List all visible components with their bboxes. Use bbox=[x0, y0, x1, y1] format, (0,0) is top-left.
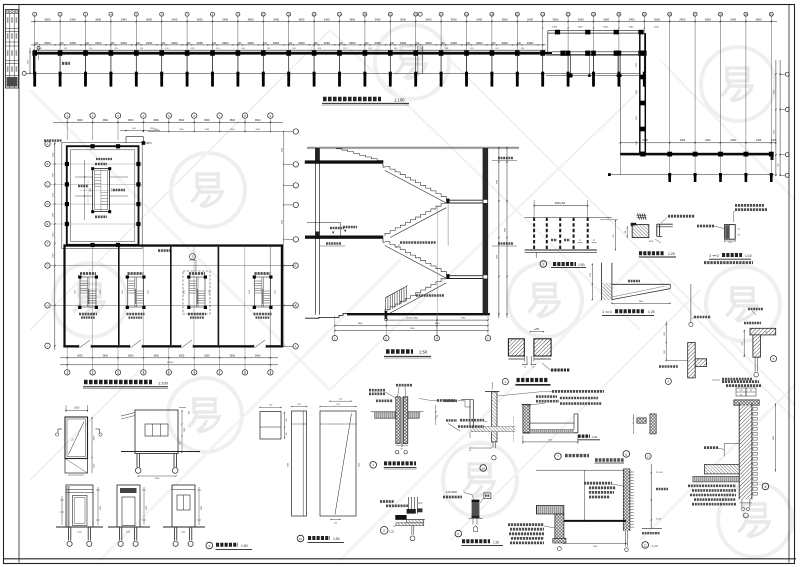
svg-text:1500: 1500 bbox=[77, 532, 81, 534]
svg-text:30: 30 bbox=[532, 367, 534, 369]
svg-text:3600: 3600 bbox=[773, 436, 775, 440]
svg-text:80: 80 bbox=[750, 390, 752, 392]
svg-text:380: 380 bbox=[286, 433, 288, 436]
svg-text:240: 240 bbox=[60, 42, 65, 45]
svg-text:3300: 3300 bbox=[52, 153, 54, 157]
svg-text:3600: 3600 bbox=[451, 17, 457, 21]
top plan left dimension and bubble A bbox=[22, 46, 40, 75]
right wing lower wall bbox=[620, 152, 773, 160]
svg-text:3300: 3300 bbox=[496, 255, 498, 259]
svg-text:2800: 2800 bbox=[146, 506, 148, 510]
top plan vertical grid lines bbox=[35, 16, 772, 174]
svg-text:150x11=1650: 150x11=1650 bbox=[406, 318, 419, 320]
svg-text:3600: 3600 bbox=[128, 119, 134, 122]
top plan main wall bbox=[33, 51, 646, 56]
booth figure label 9 bbox=[206, 542, 252, 549]
stair section left wall bbox=[315, 148, 319, 315]
left plan left grid bubbles bbox=[45, 141, 50, 348]
svg-text:240: 240 bbox=[491, 42, 496, 45]
svg-text:3600: 3600 bbox=[153, 119, 159, 122]
gutter detail 7 bbox=[522, 397, 603, 444]
svg-text:2400: 2400 bbox=[476, 17, 482, 21]
svg-text:3600: 3600 bbox=[400, 17, 406, 21]
roof joint detail 1 label bbox=[370, 462, 417, 470]
svg-text:240: 240 bbox=[441, 42, 446, 45]
svg-text:500: 500 bbox=[742, 342, 744, 345]
stair section bottom bubbles bbox=[332, 336, 491, 341]
external wall section detail 8 bbox=[688, 382, 776, 518]
svg-text:2400: 2400 bbox=[679, 17, 685, 21]
svg-text:3600: 3600 bbox=[179, 354, 185, 357]
svg-text:1:20: 1:20 bbox=[493, 540, 499, 544]
svg-text:2400: 2400 bbox=[642, 139, 648, 142]
svg-text:3000: 3000 bbox=[94, 435, 96, 441]
svg-text:1400: 1400 bbox=[654, 26, 660, 28]
svg-text:2400: 2400 bbox=[705, 139, 711, 142]
svg-text:3600: 3600 bbox=[349, 17, 355, 21]
svg-text:1500: 1500 bbox=[74, 407, 80, 410]
stair section level-2 floor slab bbox=[305, 160, 383, 163]
stair section flight C bbox=[383, 239, 446, 278]
roof joint detail 1 bbox=[369, 385, 460, 454]
svg-text:3300: 3300 bbox=[52, 193, 54, 197]
svg-text:3600: 3600 bbox=[230, 119, 236, 122]
window mullion detail M1 label bbox=[639, 252, 676, 257]
svg-text:C: C bbox=[47, 183, 49, 187]
tall column elevation 1 bbox=[287, 404, 307, 516]
svg-text:3600: 3600 bbox=[103, 119, 109, 122]
stair section flight B bbox=[385, 204, 446, 238]
svg-text:2400: 2400 bbox=[730, 17, 736, 21]
guard booth plan bbox=[55, 405, 102, 475]
svg-text:1:10: 1:10 bbox=[745, 254, 752, 258]
left plan horizontal grid lines bbox=[50, 164, 295, 305]
svg-text:60: 60 bbox=[740, 394, 742, 396]
svg-text:3600: 3600 bbox=[603, 17, 609, 21]
eave detail 2 bbox=[380, 497, 425, 541]
svg-text:3360: 3360 bbox=[298, 41, 305, 45]
top plan upper wall line bbox=[33, 49, 546, 51]
svg-text:3600: 3600 bbox=[248, 17, 254, 21]
stair section mid landing upper bbox=[446, 199, 483, 204]
top plan bottom wall line with dots bbox=[33, 72, 646, 87]
svg-text:3360: 3360 bbox=[247, 41, 254, 45]
svg-text:3600: 3600 bbox=[298, 17, 304, 21]
svg-text:240: 240 bbox=[625, 231, 627, 234]
external wall section detail 8 label bbox=[762, 483, 769, 490]
svg-text:3300: 3300 bbox=[359, 463, 361, 467]
svg-text:3000+300: 3000+300 bbox=[555, 203, 566, 205]
svg-text:1:20: 1:20 bbox=[652, 544, 658, 548]
stair section interior leaders and labels bbox=[343, 203, 448, 339]
left plan top dimension line bbox=[53, 119, 284, 132]
svg-text:3360: 3360 bbox=[451, 41, 458, 45]
svg-text:2400: 2400 bbox=[731, 139, 737, 142]
svg-text:120: 120 bbox=[339, 399, 342, 401]
svg-text:3360: 3360 bbox=[400, 41, 407, 45]
svg-text:240: 240 bbox=[288, 42, 293, 45]
svg-text:2600: 2600 bbox=[90, 188, 92, 192]
stair section ground floor bbox=[305, 313, 490, 321]
svg-text:240: 240 bbox=[364, 42, 369, 45]
top plan dimension line 2 bbox=[31, 41, 546, 50]
svg-text:2800: 2800 bbox=[100, 506, 102, 510]
svg-text:1200: 1200 bbox=[181, 532, 185, 534]
svg-text:1500: 1500 bbox=[184, 428, 186, 432]
bottom figure label 12 bbox=[642, 542, 658, 549]
svg-text:3360: 3360 bbox=[273, 41, 280, 45]
svg-text:120: 120 bbox=[740, 390, 743, 392]
svg-text:1300: 1300 bbox=[111, 188, 113, 192]
svg-text:3600: 3600 bbox=[204, 354, 210, 357]
svg-text:240: 240 bbox=[314, 42, 319, 45]
svg-text:600: 600 bbox=[664, 332, 666, 335]
stair section right wall bbox=[483, 148, 488, 315]
svg-text:3300: 3300 bbox=[287, 463, 289, 467]
left plan stair unit 4 bbox=[249, 274, 276, 318]
canopy section detail 1-1 label bbox=[602, 310, 655, 315]
svg-text:3600: 3600 bbox=[77, 119, 83, 122]
svg-text:1:100: 1:100 bbox=[158, 380, 169, 385]
svg-text:1400: 1400 bbox=[552, 26, 558, 28]
left plan top grid bubbles bbox=[65, 113, 274, 140]
svg-text:3600: 3600 bbox=[197, 17, 203, 21]
svg-text:3600: 3600 bbox=[128, 354, 134, 357]
svg-text:3600: 3600 bbox=[146, 17, 152, 21]
stair section flight A bbox=[383, 164, 446, 203]
flashing detail 4 label bbox=[665, 378, 671, 384]
stair section upper cut flight bbox=[336, 148, 383, 162]
svg-text:1:50: 1:50 bbox=[578, 263, 585, 267]
stair section entry platform bbox=[307, 223, 344, 236]
svg-text:3600: 3600 bbox=[153, 354, 159, 357]
svg-text:2400: 2400 bbox=[756, 139, 762, 142]
svg-text:2: 2 bbox=[709, 254, 711, 258]
stair section top lines bbox=[307, 147, 519, 149]
svg-text:3360: 3360 bbox=[95, 41, 102, 45]
stair tower top-right notch bbox=[120, 128, 160, 145]
svg-text:2400: 2400 bbox=[273, 17, 279, 21]
svg-text:1450: 1450 bbox=[209, 290, 211, 294]
svg-text:3300: 3300 bbox=[52, 253, 54, 257]
svg-text:240: 240 bbox=[110, 42, 115, 45]
svg-text:1:50: 1:50 bbox=[241, 544, 248, 548]
stair section mid landing lower bbox=[446, 274, 483, 279]
svg-text:0.000: 0.000 bbox=[656, 519, 662, 521]
svg-text:3600: 3600 bbox=[552, 17, 558, 21]
foundation joint detail 6 label bbox=[455, 530, 503, 545]
svg-text:240: 240 bbox=[415, 42, 420, 45]
svg-text:3360: 3360 bbox=[44, 41, 51, 45]
tall columns figure label 10 bbox=[297, 535, 344, 542]
svg-text:240: 240 bbox=[339, 42, 344, 45]
stair section right dimension lines bbox=[496, 147, 507, 318]
svg-text:3300: 3300 bbox=[281, 220, 283, 224]
left plan right bubbles bbox=[283, 263, 298, 349]
svg-text:1:100: 1:100 bbox=[394, 97, 405, 102]
svg-text:2400: 2400 bbox=[375, 17, 381, 21]
svg-text:C: C bbox=[295, 264, 297, 268]
svg-text:3360: 3360 bbox=[146, 41, 153, 45]
svg-text:1450: 1450 bbox=[75, 290, 77, 294]
right wing lower dimension row bbox=[620, 139, 777, 144]
svg-text:1:25: 1:25 bbox=[648, 310, 655, 314]
svg-text:60: 60 bbox=[469, 450, 471, 452]
svg-text:3360: 3360 bbox=[222, 41, 229, 45]
top plan left end wall bbox=[33, 52, 35, 74]
svg-text:3360: 3360 bbox=[527, 41, 534, 45]
left plan bottom grid bubbles bbox=[65, 370, 274, 375]
stair section title bbox=[384, 350, 431, 358]
right wing lower bottom line bbox=[608, 140, 775, 182]
gutter section mini title bbox=[578, 435, 601, 440]
top plan title bbox=[322, 97, 409, 105]
svg-text:30: 30 bbox=[437, 415, 439, 417]
top plan columns bbox=[32, 51, 646, 56]
svg-text:3360: 3360 bbox=[197, 41, 204, 45]
svg-text:C: C bbox=[334, 337, 336, 340]
svg-text:3600: 3600 bbox=[204, 119, 210, 122]
right wing right-edge dimension line and bubbles bbox=[773, 60, 789, 177]
stair tower outer wall bbox=[44, 141, 142, 249]
svg-text:1: 1 bbox=[610, 310, 612, 314]
svg-text:1400: 1400 bbox=[603, 26, 609, 28]
svg-text:3300: 3300 bbox=[52, 233, 54, 237]
gutter detail 7 label bbox=[555, 453, 589, 460]
right wing corner rooms bbox=[546, 55, 640, 153]
svg-text:3600: 3600 bbox=[179, 119, 185, 122]
svg-text:3600: 3600 bbox=[103, 354, 109, 357]
svg-text:1:20: 1:20 bbox=[389, 530, 395, 534]
svg-text:≥250: ≥250 bbox=[534, 328, 540, 331]
svg-text:3600: 3600 bbox=[230, 354, 236, 357]
top plan grid bubbles bbox=[33, 12, 774, 16]
top plan room partition lines bbox=[35, 55, 645, 74]
svg-text:240: 240 bbox=[334, 522, 337, 524]
upper step wall of right wing bbox=[542, 26, 659, 52]
svg-text:E: E bbox=[47, 222, 49, 226]
left plan unit partitions bbox=[93, 247, 271, 346]
left plan right-side dimension line and bubbles bbox=[281, 129, 298, 347]
flashing detail 4 bbox=[659, 284, 711, 378]
svg-text:28800: 28800 bbox=[167, 362, 174, 364]
title block strip bbox=[6, 10, 19, 89]
svg-text:240: 240 bbox=[466, 42, 471, 45]
svg-text:240: 240 bbox=[34, 42, 39, 45]
canopy plan detail (yupeng pingmian) bbox=[525, 200, 618, 258]
eave detail 2 label bbox=[380, 527, 394, 535]
svg-text:3360: 3360 bbox=[120, 41, 127, 45]
parapet joint detail 14 bbox=[444, 382, 604, 460]
level marks column detail 13 bbox=[633, 414, 668, 533]
svg-text:3600: 3600 bbox=[44, 17, 50, 21]
svg-text:2800: 2800 bbox=[201, 506, 203, 510]
svg-text:3300: 3300 bbox=[52, 173, 54, 177]
svg-text:900: 900 bbox=[180, 441, 182, 444]
svg-text:C15 3600: C15 3600 bbox=[446, 491, 457, 494]
svg-text:2400: 2400 bbox=[121, 17, 127, 21]
svg-text:2: 2 bbox=[383, 529, 385, 533]
wall joint detail 3 label bbox=[502, 379, 550, 385]
svg-text:11.100: 11.100 bbox=[656, 472, 663, 474]
wall section detail 11 bbox=[508, 469, 634, 551]
section detail 2-2 label bbox=[704, 254, 753, 263]
svg-text:2400: 2400 bbox=[70, 17, 76, 21]
svg-text:240: 240 bbox=[85, 42, 90, 45]
wall joint detail 3 hatched squares bbox=[508, 328, 570, 370]
svg-text:1200: 1200 bbox=[126, 532, 130, 534]
svg-text:2400: 2400 bbox=[629, 17, 635, 21]
svg-text:B: B bbox=[295, 304, 297, 308]
svg-text:2400: 2400 bbox=[171, 17, 177, 21]
left plan leader to unit 3 bbox=[189, 254, 196, 272]
svg-text:1: 1 bbox=[602, 310, 604, 314]
svg-text:A: A bbox=[47, 142, 49, 146]
left plan bottom dimensions bbox=[60, 348, 278, 375]
right wing vertical double wall bbox=[636, 33, 645, 156]
svg-text:D: D bbox=[385, 337, 387, 340]
svg-text:240: 240 bbox=[161, 42, 166, 45]
coping detail 5 bbox=[742, 309, 776, 377]
svg-text:3600: 3600 bbox=[255, 119, 261, 122]
svg-text:3600: 3600 bbox=[255, 354, 261, 357]
window mullion detail M1 bbox=[625, 214, 695, 244]
svg-text:3300: 3300 bbox=[636, 63, 638, 67]
top plan expansion joint bbox=[418, 46, 423, 74]
stair section bottom dimensions bbox=[334, 316, 489, 335]
svg-text:S: S bbox=[542, 262, 544, 266]
svg-text:3600: 3600 bbox=[756, 17, 762, 21]
svg-text:60: 60 bbox=[393, 526, 395, 528]
coping detail 5 label bbox=[770, 356, 776, 362]
svg-text:1400: 1400 bbox=[628, 26, 634, 28]
svg-text:2400: 2400 bbox=[680, 139, 686, 142]
left plan stair unit 3 bbox=[184, 274, 211, 318]
left plan door openings bbox=[79, 340, 266, 348]
guard booth front elevation bbox=[121, 408, 200, 480]
svg-text:1450: 1450 bbox=[147, 290, 149, 294]
svg-text:240: 240 bbox=[187, 42, 192, 45]
booth elevation 1 bbox=[56, 485, 103, 546]
top plan dimension line 1 bbox=[31, 17, 777, 22]
svg-text:2400: 2400 bbox=[425, 17, 431, 21]
foundation joint detail 6 bbox=[443, 491, 491, 531]
svg-text:3360: 3360 bbox=[374, 41, 381, 45]
svg-text:600: 600 bbox=[189, 411, 191, 414]
svg-text:1450: 1450 bbox=[122, 290, 124, 294]
left plan stair unit 1 bbox=[75, 274, 102, 318]
svg-text:750: 750 bbox=[613, 234, 615, 237]
svg-text:B: B bbox=[47, 162, 49, 166]
svg-text:240: 240 bbox=[263, 42, 268, 45]
stair core inside tower bbox=[75, 159, 128, 220]
svg-text:D: D bbox=[47, 202, 49, 206]
booth elevation 3 bbox=[163, 485, 205, 546]
svg-text:1:25: 1:25 bbox=[668, 252, 675, 256]
svg-text:A: A bbox=[295, 344, 297, 348]
svg-text:3600: 3600 bbox=[77, 354, 83, 357]
svg-text:G: G bbox=[46, 264, 48, 268]
svg-text:3600: 3600 bbox=[95, 17, 101, 21]
svg-text:3300: 3300 bbox=[636, 90, 638, 94]
svg-text:3360: 3360 bbox=[171, 41, 178, 45]
left plan stair unit 2 bbox=[122, 274, 149, 318]
svg-text:3300: 3300 bbox=[281, 148, 283, 152]
section detail 2-2 bbox=[697, 205, 767, 244]
svg-text:3300: 3300 bbox=[496, 180, 498, 184]
stair section left level tags bbox=[320, 158, 517, 246]
top plan room label bbox=[62, 62, 70, 65]
svg-text:3360: 3360 bbox=[476, 41, 483, 45]
svg-text:2750: 2750 bbox=[590, 273, 592, 277]
left plan highlighted unit dashed box bbox=[183, 271, 210, 314]
column section small bbox=[259, 405, 288, 439]
svg-text:240: 240 bbox=[136, 42, 141, 45]
svg-text:3600: 3600 bbox=[654, 17, 660, 21]
svg-text:H: H bbox=[47, 304, 49, 308]
mini dim table under detail 5 bbox=[712, 379, 756, 396]
stair section level-1 floor slab bbox=[305, 236, 383, 239]
svg-text:1450: 1450 bbox=[184, 290, 186, 294]
svg-text:1:50: 1:50 bbox=[419, 350, 428, 355]
svg-text:2400: 2400 bbox=[222, 17, 228, 21]
left plan left dimension line bbox=[52, 140, 55, 350]
svg-text:380: 380 bbox=[286, 419, 288, 422]
svg-text:3360: 3360 bbox=[349, 41, 356, 45]
svg-text:3360: 3360 bbox=[70, 41, 77, 45]
svg-text:3300: 3300 bbox=[636, 116, 638, 120]
stair section flight D with railing bbox=[385, 279, 447, 319]
wall section detail 11 label bbox=[595, 451, 630, 463]
svg-text:2400: 2400 bbox=[578, 17, 584, 21]
svg-text:600: 600 bbox=[778, 164, 780, 167]
svg-text:3300: 3300 bbox=[52, 213, 54, 217]
svg-text:240: 240 bbox=[212, 42, 217, 45]
svg-text:1450: 1450 bbox=[100, 290, 102, 294]
svg-text:2: 2 bbox=[717, 254, 719, 258]
svg-text:900: 900 bbox=[664, 350, 666, 353]
svg-text:240: 240 bbox=[237, 42, 242, 45]
svg-text:3360: 3360 bbox=[324, 41, 331, 45]
svg-text:2400: 2400 bbox=[527, 17, 533, 21]
canopy section detail 1-1 bbox=[590, 263, 671, 304]
svg-text:240: 240 bbox=[390, 42, 395, 45]
tall column elevation 2 tapered bbox=[319, 399, 360, 525]
svg-text:3600: 3600 bbox=[502, 17, 508, 21]
parapet joint detail 14 label bbox=[480, 465, 487, 472]
canopy plan detail label bbox=[540, 261, 586, 268]
svg-text:1450: 1450 bbox=[249, 290, 251, 294]
svg-text:1400: 1400 bbox=[578, 26, 584, 28]
left plan lower strip walls bbox=[63, 244, 283, 347]
booth elevation 2 bbox=[108, 485, 150, 546]
svg-text:6600: 6600 bbox=[505, 228, 507, 232]
svg-text:30: 30 bbox=[524, 367, 526, 369]
svg-text:240: 240 bbox=[517, 42, 522, 45]
svg-text:3360: 3360 bbox=[425, 41, 432, 45]
svg-text:1:50: 1:50 bbox=[333, 537, 340, 541]
left plan title bbox=[83, 380, 169, 388]
svg-text:1450: 1450 bbox=[274, 290, 276, 294]
svg-text:3360: 3360 bbox=[501, 41, 508, 45]
svg-text:2400: 2400 bbox=[324, 17, 330, 21]
svg-text:3600: 3600 bbox=[705, 17, 711, 21]
svg-text:1:20: 1:20 bbox=[592, 435, 598, 439]
